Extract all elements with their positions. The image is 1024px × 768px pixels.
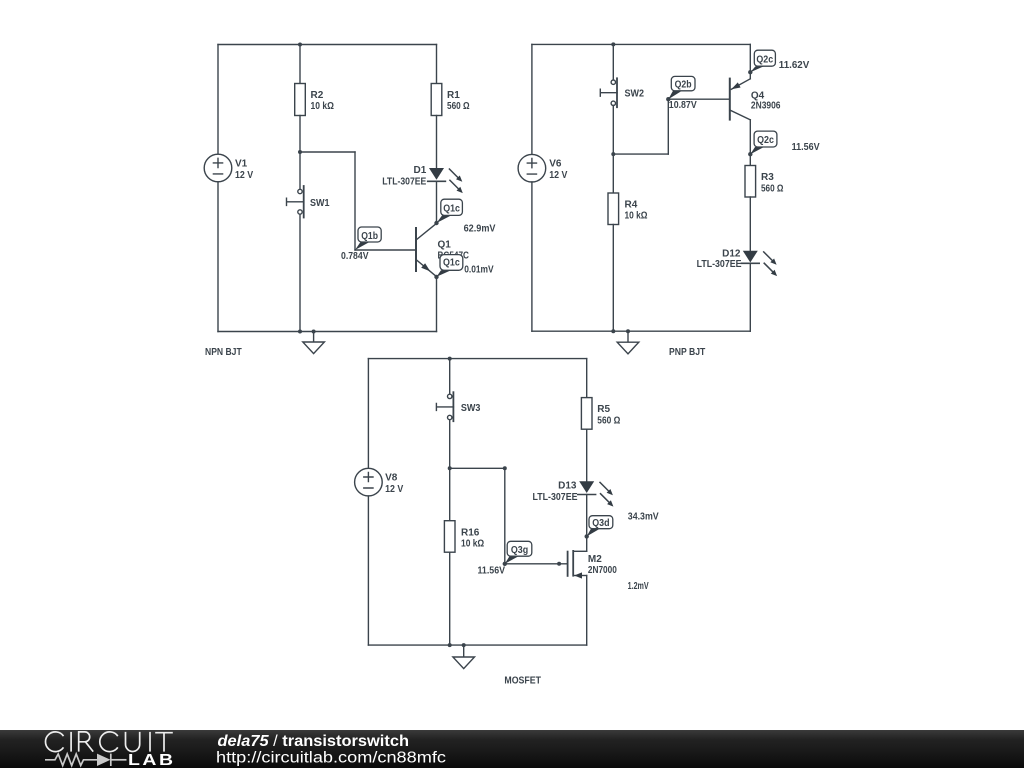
probe label Q1c (collector) [437, 199, 463, 223]
node: Q4 base probe point [666, 97, 670, 101]
transistor Q4 (PNP) [730, 79, 781, 120]
LED D13 [533, 481, 614, 507]
svg-text:V8: V8 [385, 473, 398, 484]
probe label Q3g [505, 541, 532, 564]
junction: R4 at bottom rail [611, 329, 615, 333]
svg-text:11.62V: 11.62V [779, 60, 810, 71]
svg-text:R2: R2 [311, 90, 324, 101]
svg-text:10 kΩ: 10 kΩ [311, 101, 334, 112]
wire: SW1 top lead [299, 152, 301, 189]
wire: node to base column (horizontal) [300, 151, 355, 153]
svg-text:LTL-307EE: LTL-307EE [697, 259, 742, 270]
svg-text:V6: V6 [549, 159, 562, 170]
wire: R16 bottom lead [449, 552, 451, 645]
svg-text:Q1b: Q1b [361, 231, 378, 242]
svg-text:Q2c: Q2c [757, 135, 774, 146]
probe label Q3d [587, 516, 613, 537]
wire: SW3 top lead [449, 359, 451, 395]
svg-text:1.2mV: 1.2mV [628, 581, 649, 592]
node: Q4 emitter probe point [748, 70, 752, 74]
wire: R2 top lead [299, 45, 301, 84]
wire: SW1 bottom lead [299, 214, 301, 331]
svg-text:D12: D12 [722, 248, 741, 259]
LED D1 [382, 165, 463, 193]
wire: Q4 base lead [668, 98, 729, 100]
wire: PNP left wire upper [531, 44, 533, 154]
svg-text:Q1: Q1 [438, 239, 452, 250]
wire: MOSFET top rail [368, 358, 586, 360]
wire: M2 source to bottom rail [586, 576, 588, 646]
svg-text:12 V: 12 V [549, 170, 567, 181]
svg-text:12 V: 12 V [385, 484, 403, 495]
svg-text:11.56V: 11.56V [478, 566, 506, 577]
wire: PNP top rail [532, 43, 750, 45]
LED D12 [697, 248, 778, 276]
svg-text:http://circuitlab.com/cn88mfc: http://circuitlab.com/cn88mfc [216, 750, 446, 767]
junction: SW3/R16 node [448, 466, 452, 470]
svg-text:dela75 / transistorswitch: dela75 / transistorswitch [218, 733, 410, 750]
svg-text:M2: M2 [588, 554, 602, 565]
svg-text:Q3g: Q3g [511, 545, 528, 556]
junction: R16 at bottom rail [448, 643, 452, 647]
wire: MOSFET left wire upper [367, 359, 369, 469]
wire: R4 bottom lead [612, 225, 614, 332]
resistor R16 [444, 521, 484, 553]
junction: base node at (300,152) [298, 150, 302, 154]
wire: MOSFET bottom rail [368, 644, 586, 646]
wire: base column vertical [354, 152, 356, 250]
resistor R3 [745, 166, 784, 198]
wire: node to gate riser (horizontal) [450, 467, 505, 469]
wire: PNP left wire lower [531, 182, 533, 331]
wire: Q1 emitter to bottom rail [436, 277, 438, 332]
svg-text:62.9mV: 62.9mV [464, 224, 496, 235]
svg-text:R4: R4 [625, 200, 638, 211]
svg-text:10 kΩ: 10 kΩ [461, 539, 484, 550]
svg-text:560 Ω: 560 Ω [597, 416, 620, 427]
wire: NPN top rail [218, 44, 437, 46]
voltage source V6 [518, 154, 568, 182]
resistor R5 [581, 398, 620, 430]
wire: SW3 bottom lead [449, 420, 451, 469]
svg-text:D1: D1 [414, 165, 427, 176]
probe label Q2c (collector) [750, 131, 777, 154]
svg-text:R1: R1 [447, 90, 460, 101]
svg-text:560 Ω: 560 Ω [761, 183, 784, 194]
wire: SW2 bottom lead [612, 106, 614, 155]
svg-text:12 V: 12 V [235, 170, 253, 181]
voltage source V1 [204, 154, 253, 182]
node: Q1 collector probe point [434, 221, 438, 225]
svg-text:SW1: SW1 [310, 198, 330, 209]
svg-text:NPN BJT: NPN BJT [205, 347, 242, 358]
junction: SW2/R4 node [611, 152, 615, 156]
wire: M2 gate lead [505, 563, 567, 565]
probe label Q1b [355, 227, 381, 250]
wire: R5 to LED D13 [586, 429, 588, 481]
wire: node to base riser (horizontal) [613, 153, 668, 155]
footer bar [0, 730, 1024, 768]
node: M2 gate probe point [503, 562, 507, 566]
wire: LED D13 to M2 drain [586, 495, 588, 552]
transistor M2 (NMOS) [568, 551, 618, 579]
wire: base riser vertical [667, 99, 669, 154]
resistor R2 [295, 84, 334, 116]
svg-text:PNP BJT: PNP BJT [669, 347, 705, 358]
switch SW2 [600, 78, 644, 107]
resistor R1 [431, 84, 469, 116]
wire: MOSFET left wire lower [367, 496, 369, 645]
junction: SW3 branch at top rail [448, 357, 452, 361]
wire: NPN bottom rail [218, 331, 437, 333]
wire: SW2 top lead [612, 44, 614, 80]
svg-text:LAB: LAB [128, 752, 176, 768]
node: Q1 emitter probe point [434, 275, 438, 279]
svg-text:D13: D13 [558, 481, 577, 492]
wire: Q4 emitter top lead from rail [749, 44, 751, 78]
svg-text:V1: V1 [235, 159, 248, 170]
svg-text:0.01mV: 0.01mV [464, 264, 494, 275]
switch SW1 [287, 186, 330, 218]
ground (PNP) [617, 329, 639, 354]
svg-text:Q2c: Q2c [756, 54, 773, 65]
svg-text:2N7000: 2N7000 [588, 565, 617, 576]
svg-text:R16: R16 [461, 527, 480, 538]
junction: R2 at top rail [298, 43, 302, 47]
wire: gate riser vertical [504, 468, 506, 564]
probe label Q2c (emitter) [750, 50, 775, 72]
wire: NPN left wire upper (V1 to top rail) [217, 45, 219, 155]
svg-text:MOSFET: MOSFET [504, 675, 541, 686]
svg-text:11.56V: 11.56V [792, 142, 820, 153]
wire: R16 top lead [449, 468, 451, 520]
svg-text:Q2b: Q2b [675, 80, 692, 91]
wire: R1 to LED D1 [436, 116, 438, 169]
svg-text:SW2: SW2 [625, 88, 645, 99]
wire: R4 top lead [612, 154, 614, 193]
wire: NPN left wire lower (V1 to bottom rail) [217, 182, 219, 332]
ground (NPN) [303, 330, 325, 354]
svg-text:10.87V: 10.87V [669, 100, 697, 111]
svg-text:34.3mV: 34.3mV [628, 512, 659, 523]
transistor Q1 (NPN) [416, 223, 469, 276]
svg-text:2N3906: 2N3906 [751, 100, 781, 111]
junction: SW1 branch at bottom rail [298, 330, 302, 334]
wire: Q1 base lead [355, 249, 415, 251]
wire: PNP bottom rail [532, 330, 750, 332]
CircuitLab logo wordmark CIRCUIT [45, 732, 172, 752]
voltage source V8 [355, 468, 404, 496]
svg-text:R5: R5 [597, 404, 610, 415]
svg-text:LTL-307EE: LTL-307EE [382, 177, 426, 188]
probe label Q2b [668, 76, 695, 99]
svg-text:10 kΩ: 10 kΩ [625, 210, 648, 221]
wire: R5 top lead [586, 359, 588, 398]
probe label Q1c (emitter) [437, 255, 463, 277]
wire: LED D12 to bottom rail [749, 263, 751, 331]
ground (MOSFET) [453, 643, 475, 669]
svg-text:Q1c: Q1c [443, 258, 460, 269]
resistor R4 [608, 193, 648, 225]
junction: gate dot [557, 562, 561, 566]
junction: SW2 branch at top rail [611, 42, 615, 46]
svg-text:LTL-307EE: LTL-307EE [533, 492, 578, 503]
switch SW3 [436, 392, 480, 421]
wire: R2 bottom lead to node [299, 116, 301, 153]
wire: LED D1 to Q1 collector [436, 181, 438, 223]
wire: R3 to LED D12 [749, 197, 751, 251]
node: M2 drain probe point [585, 534, 589, 538]
svg-text:SW3: SW3 [461, 403, 481, 414]
node: Q4 collector probe point [748, 152, 752, 156]
svg-text:R3: R3 [761, 172, 774, 183]
svg-text:Q1c: Q1c [443, 203, 460, 214]
junction: gate riser top [503, 466, 507, 470]
svg-text:Q3d: Q3d [592, 518, 609, 529]
svg-text:560 Ω: 560 Ω [447, 101, 470, 112]
CircuitLab logo resistor-diode glyph [45, 754, 127, 766]
wire: R1 top lead [436, 45, 438, 84]
svg-text:0.784V: 0.784V [341, 251, 369, 262]
wire: Q4 collector to R3 [749, 120, 751, 166]
